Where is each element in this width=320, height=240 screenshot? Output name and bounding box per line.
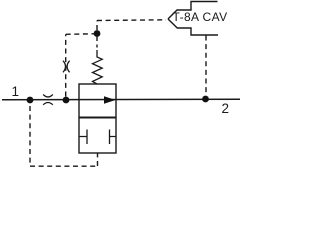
wire: dashed pilot line from left main-line node down bbox=[29, 106, 31, 166]
pilot orifice (needle) on vertical pilot line bbox=[63, 61, 70, 73]
svg-text:2: 2 bbox=[221, 101, 229, 116]
wire: dashed riser from bottom pilot line to valve box bottom bbox=[97, 153, 99, 166]
node: junction on main line below pilot orifice bbox=[63, 97, 70, 104]
wire: dashed pilot line from spring node up bbox=[96, 21, 98, 31]
node: junction on main line right bbox=[202, 96, 209, 103]
T-8A cavity outline bbox=[168, 2, 218, 36]
wire: dashed pilot line to cavity symbol bbox=[97, 19, 166, 22]
valve V1 body (two stacked boxes) bbox=[79, 84, 116, 153]
wire: dashed pilot line along bottom bbox=[30, 165, 98, 167]
flow path arrow in top box bbox=[104, 96, 116, 103]
wire: dashed pilot line from spring node down to spring bbox=[96, 37, 98, 48]
svg-text:T-8A CAV: T-8A CAV bbox=[173, 10, 228, 24]
wire: dashed pilot line from cavity bottom ledge down to right main-line node bbox=[205, 36, 207, 96]
wire: dashed pilot line from node up through pilot orifice bbox=[65, 35, 67, 97]
node: pilot junction above spring bbox=[94, 30, 101, 37]
wire: dashed pilot line from orifice corner to spring node bbox=[66, 33, 94, 36]
node: junction on main line left bbox=[27, 97, 34, 104]
svg-text:1: 1 bbox=[11, 84, 19, 99]
wire: main flow line from port 1 to port 2 bbox=[2, 98, 240, 101]
closed port symbols in bottom box bbox=[79, 130, 116, 145]
spring above valve box bbox=[93, 50, 103, 84]
fixed orifice on main line bbox=[43, 95, 53, 105]
